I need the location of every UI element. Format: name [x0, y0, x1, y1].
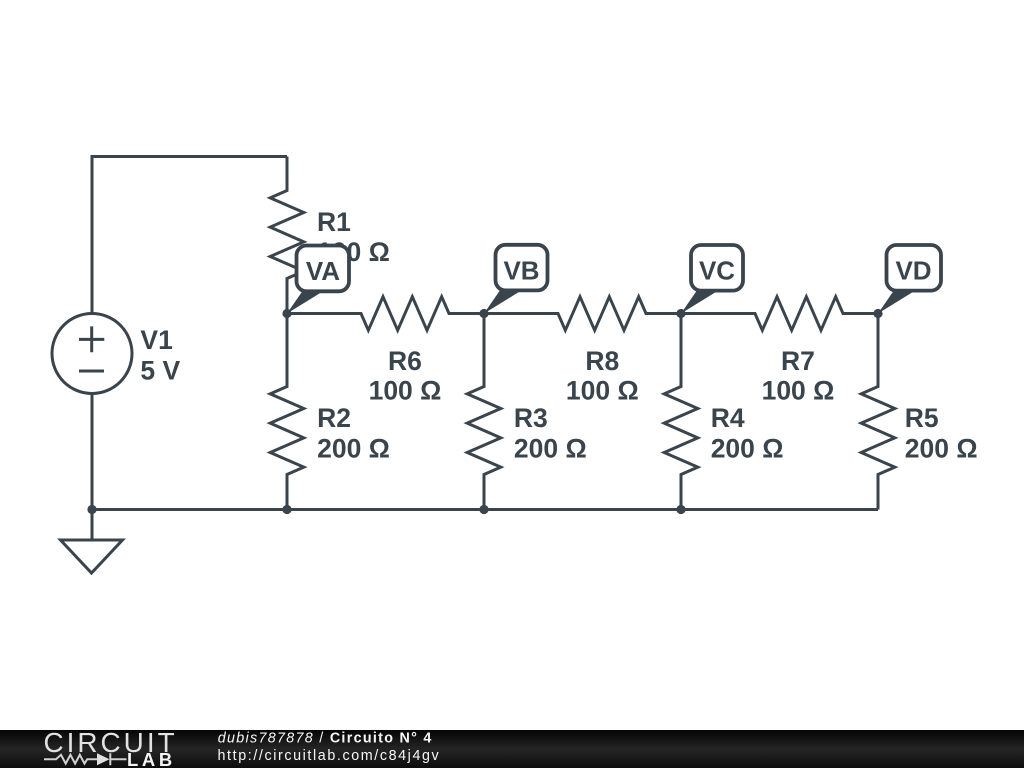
svg-text:R4: R4: [711, 403, 745, 433]
svg-text:http://circuitlab.com/c84j4gv: http://circuitlab.com/c84j4gv: [218, 748, 441, 764]
svg-text:dubis787878 / Circuito N° 4: dubis787878 / Circuito N° 4: [218, 731, 433, 747]
svg-text:R2: R2: [317, 403, 351, 433]
svg-text:LAB: LAB: [127, 749, 176, 768]
svg-text:200 Ω: 200 Ω: [317, 433, 390, 463]
svg-text:R7: R7: [781, 346, 815, 376]
svg-text:VD: VD: [895, 256, 931, 286]
svg-text:100 Ω: 100 Ω: [369, 375, 442, 405]
svg-text:R3: R3: [514, 403, 548, 433]
svg-text:R5: R5: [905, 403, 939, 433]
svg-text:R1: R1: [317, 207, 351, 237]
svg-text:100 Ω: 100 Ω: [762, 375, 835, 405]
svg-text:R6: R6: [388, 346, 422, 376]
svg-text:VB: VB: [503, 256, 539, 286]
svg-text:200 Ω: 200 Ω: [905, 433, 978, 463]
svg-text:200 Ω: 200 Ω: [711, 433, 784, 463]
svg-text:200 Ω: 200 Ω: [514, 433, 587, 463]
svg-text:V1: V1: [140, 325, 172, 355]
svg-text:5 V: 5 V: [140, 355, 180, 385]
svg-text:VA: VA: [306, 256, 340, 286]
svg-text:R8: R8: [585, 346, 619, 376]
svg-text:100 Ω: 100 Ω: [566, 375, 639, 405]
svg-text:VC: VC: [699, 256, 735, 286]
